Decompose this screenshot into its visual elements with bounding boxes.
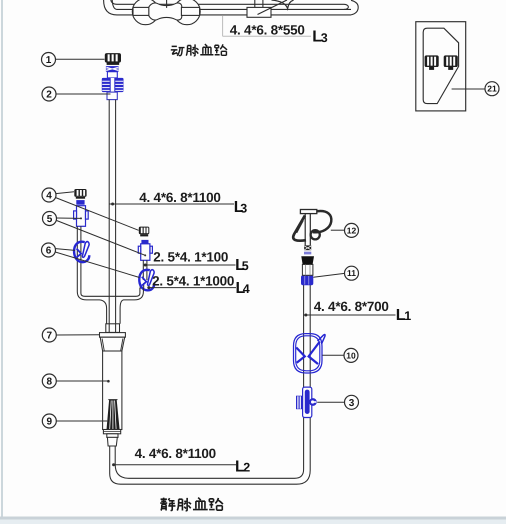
leader 8 xyxy=(57,380,109,382)
dimension L4 1000 xyxy=(147,274,249,297)
flange item 7 xyxy=(100,333,126,338)
clamp item 6b (middle branch) xyxy=(139,270,154,291)
cap item 1 xyxy=(105,53,121,65)
balloon 21 xyxy=(485,82,499,96)
pump flange right disc xyxy=(174,0,200,25)
wire: outlet tube, bottom run and right riser xyxy=(110,285,311,484)
leader 11 xyxy=(313,273,344,277)
branch tube rising from tee (cropped) xyxy=(255,0,263,7)
pouch outline xyxy=(423,28,458,103)
svg-text:4: 4 xyxy=(46,191,52,202)
right U-bend of tube xyxy=(344,4,348,9)
svg-text:5: 5 xyxy=(47,214,53,225)
cap item 4a (left branch) xyxy=(74,189,86,205)
balloon 10 xyxy=(344,348,358,362)
connector item 2 xyxy=(102,66,124,100)
leader 10 xyxy=(322,354,344,356)
outlet neck xyxy=(107,434,118,438)
balloon 9 xyxy=(42,414,56,428)
manifold top line with inner elbows xyxy=(81,288,140,296)
balloon 12 xyxy=(345,223,359,237)
svg-text:2: 2 xyxy=(46,90,52,101)
脉 xyxy=(186,46,191,56)
血 xyxy=(193,498,208,510)
静 xyxy=(160,498,167,504)
svg-text:12: 12 xyxy=(347,225,357,235)
wire: lower arterial tube xyxy=(117,9,351,15)
leader 4b xyxy=(55,198,138,231)
connector item 5b (middle branch) xyxy=(138,244,152,260)
left page edge line xyxy=(1,0,3,517)
roller clamp item 10 xyxy=(294,334,326,373)
svg-text:9: 9 xyxy=(47,417,53,428)
leader 5a xyxy=(57,217,81,219)
injection tee on arterial tube xyxy=(247,7,271,17)
wire: upper return tube xyxy=(117,3,344,5)
bottom band xyxy=(0,517,506,520)
wire: middle branch tube xyxy=(140,260,147,289)
动 xyxy=(171,46,178,54)
leader 12 xyxy=(331,229,345,231)
dimension L2 1100 xyxy=(112,446,250,476)
svg-text:4. 4*6. 8*550: 4. 4*6. 8*550 xyxy=(230,23,305,38)
balloon 5 xyxy=(43,212,57,226)
balloon 8 xyxy=(42,374,56,388)
血 xyxy=(200,44,213,55)
svg-text:5: 5 xyxy=(242,259,249,273)
svg-text:1: 1 xyxy=(46,55,52,66)
leader 21 xyxy=(452,88,485,90)
pump connector right xyxy=(181,7,199,15)
svg-text:3: 3 xyxy=(321,31,328,45)
dimension L3 1100 xyxy=(110,190,248,216)
svg-text:2. 5*4. 1*1000: 2. 5*4. 1*1000 xyxy=(152,274,234,289)
dimension 550 extension lines (light) xyxy=(223,16,311,36)
balloon 2 xyxy=(42,87,56,101)
balloon 7 xyxy=(42,328,56,342)
detail box xyxy=(416,22,466,111)
svg-text:21: 21 xyxy=(487,84,497,94)
label 静脉血路 (venous blood line) xyxy=(160,498,223,511)
svg-text:4. 4*6. 8*700: 4. 4*6. 8*700 xyxy=(314,299,389,314)
spare cap A in box xyxy=(425,55,439,70)
pump segment center tick xyxy=(166,0,168,8)
svg-text:3: 3 xyxy=(240,202,247,216)
light blue collar xyxy=(304,252,311,255)
leader 7 xyxy=(56,334,99,336)
svg-text:3: 3 xyxy=(349,398,355,409)
balloon 4 xyxy=(42,188,56,202)
balloon 1 xyxy=(42,53,56,67)
cropped loop arc xyxy=(272,0,294,9)
balloon 11 xyxy=(345,266,359,280)
leader 6a xyxy=(56,249,75,251)
svg-text:10: 10 xyxy=(346,350,356,360)
manifold bottom-left outer elbow into funnel xyxy=(77,289,106,324)
injection tee item 3 xyxy=(296,387,317,417)
svg-text:11: 11 xyxy=(347,268,356,278)
balloon 6 xyxy=(42,243,56,257)
leader 1 xyxy=(56,58,105,60)
svg-text:1: 1 xyxy=(404,309,411,323)
路 xyxy=(209,499,215,510)
脉 xyxy=(177,499,182,510)
pump flange left disc xyxy=(132,0,158,25)
dimension L1 700 xyxy=(304,299,412,324)
Y manifold joining branches xyxy=(77,288,143,324)
filter item 9 xyxy=(107,400,120,430)
svg-text:6: 6 xyxy=(46,246,52,257)
drip chamber shoulder xyxy=(100,337,125,351)
black cap below item 12 xyxy=(301,256,314,264)
svg-text:7: 7 xyxy=(47,331,53,342)
svg-text:4. 4*6. 8*1100: 4. 4*6. 8*1100 xyxy=(135,446,216,461)
chamber bottom flange xyxy=(103,430,120,434)
manifold bottom-right outer elbow into funnel xyxy=(120,288,143,324)
leader 5b xyxy=(57,221,145,256)
pump connector left xyxy=(133,7,149,15)
handle item 12 xyxy=(293,210,331,246)
leader 2 xyxy=(56,93,110,95)
clamp item 6a (left branch) xyxy=(74,242,89,263)
pump tube segment body xyxy=(149,3,182,20)
路 xyxy=(215,45,220,55)
svg-text:8: 8 xyxy=(47,377,53,388)
dimension L5 100 xyxy=(144,250,249,274)
cap item 4b (middle branch) xyxy=(139,227,150,244)
balloon 3 xyxy=(345,395,359,409)
leader 6b xyxy=(55,252,139,278)
leader 3 xyxy=(317,401,344,403)
tee clamp diagonal handle xyxy=(258,0,288,15)
svg-text:4: 4 xyxy=(243,282,250,296)
drip chamber body item 8 xyxy=(103,351,122,430)
outlet taper collar xyxy=(107,437,117,446)
svg-text:2. 5*4. 1*100: 2. 5*4. 1*100 xyxy=(153,250,228,265)
left U-bend of tube xyxy=(104,0,117,15)
spare cap B in box xyxy=(444,55,458,70)
wire: left branch tube xyxy=(77,226,81,289)
leader 4a xyxy=(56,192,74,194)
label 动脉血路 (arterial blood line) xyxy=(171,44,227,56)
svg-text:4. 4*6. 8*1100: 4. 4*6. 8*1100 xyxy=(139,190,220,205)
tube stub above item 11 xyxy=(302,264,313,275)
leader 9 xyxy=(57,420,108,422)
connector item 5a (left branch) xyxy=(74,206,89,227)
threaded section xyxy=(304,245,311,250)
connector item 11 xyxy=(301,275,313,285)
wire: main tube down from item 2 xyxy=(109,100,115,333)
collar below funnel xyxy=(106,324,120,333)
svg-text:2: 2 xyxy=(243,461,250,475)
